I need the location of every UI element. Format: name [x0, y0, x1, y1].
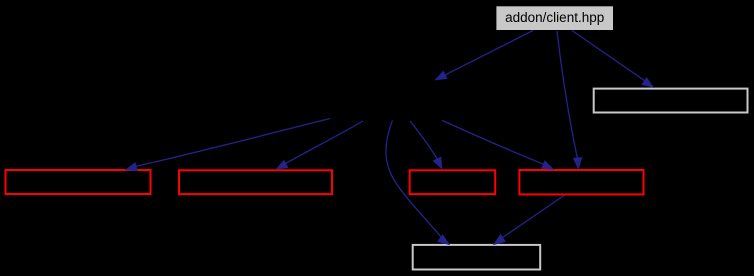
- wire client.hpp to big red box: [557, 31, 578, 161]
- node red box 2: [179, 170, 332, 194]
- wire hidden node to small red box: [410, 121, 439, 161]
- node big red box: [519, 170, 643, 194]
- arrowhead into big red box (vertical): [573, 157, 582, 170]
- wire hidden node to red box 1: [133, 119, 330, 167]
- arrowhead into bottom box (right): [493, 234, 506, 245]
- arrowhead into bottom box (left, from curve): [437, 234, 450, 245]
- arrowhead into big red box (angled): [541, 160, 554, 169]
- arrowhead into right box: [641, 77, 654, 88]
- node right box (grey outline): [594, 89, 748, 113]
- arrowhead into hidden node: [434, 71, 447, 81]
- wire hidden node to red box 2: [283, 121, 363, 165]
- wire client.hpp to hidden node: [442, 31, 533, 77]
- node addon/client.hpp (grey filled): [496, 6, 613, 30]
- arrowhead into red box 2: [275, 160, 288, 170]
- svg-text:addon/client.hpp: addon/client.hpp: [505, 10, 604, 25]
- node bottom box (grey outline): [413, 245, 541, 270]
- arrowhead into red box 1: [125, 162, 138, 171]
- wire hidden node to bottom box (curved): [386, 121, 443, 240]
- wire big red box to bottom box: [500, 196, 564, 240]
- wire hidden node to big red box: [442, 120, 546, 165]
- wire client.hpp to right box: [572, 31, 647, 83]
- arrowhead into small red box: [433, 157, 443, 170]
- node small red box: [410, 170, 496, 194]
- node red box 1: [6, 170, 151, 194]
